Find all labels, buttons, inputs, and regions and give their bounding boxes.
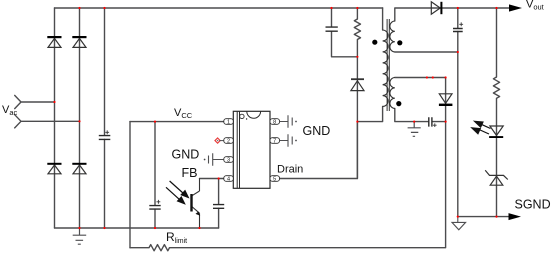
junction FB node — [218, 177, 220, 179]
no-connect diamond pin 2 — [215, 138, 220, 143]
wire FB cap column — [218, 179, 220, 229]
ground pin 7 — [280, 134, 293, 147]
junction ground rail / bypass cap — [154, 227, 156, 229]
transformer core — [387, 19, 389, 111]
pin 8 — [270, 119, 280, 126]
diode output rectifier — [431, 2, 440, 14]
wire bias bottom lead — [395, 109, 446, 122]
wire bulk cap column — [104, 8, 106, 228]
wire AC input lower — [15, 115, 80, 128]
junction AC lower / bridge col2 — [78, 120, 80, 122]
svg-text:3: 3 — [227, 158, 230, 164]
junction SGND / zener — [495, 216, 497, 218]
pin 7 — [270, 138, 280, 145]
junction top rail / bulk cap — [103, 7, 105, 9]
junction snubber bottom — [356, 56, 358, 58]
junction ground rail / bulk cap — [103, 227, 105, 229]
junction AC upper / bridge col1 — [53, 101, 55, 103]
junction ground rail / opto emitter — [198, 227, 200, 229]
wire Rlimit bottom loop — [130, 122, 446, 248]
junction bias top lead a — [426, 76, 428, 78]
wire Drain line — [280, 122, 358, 179]
LED output — [490, 126, 503, 135]
junction bias return / ground — [413, 121, 415, 123]
wire clamp column — [356, 8, 358, 179]
resistor snubber — [354, 19, 360, 40]
wire bias top lead — [395, 77, 446, 79]
svg-text:8: 8 — [273, 120, 276, 126]
optocoupler light arrows — [166, 181, 188, 204]
junction drain / primary / clamp — [356, 121, 358, 123]
zener diode — [485, 170, 508, 185]
junction bias top lead b — [432, 76, 434, 78]
port arrow SGND — [509, 213, 522, 220]
svg-text:5: 5 — [273, 177, 276, 183]
transformer T1 primary winding — [383, 30, 388, 107]
wire bottom primary ground rail — [55, 227, 219, 229]
ground SGND triangle — [452, 217, 466, 230]
ground bias — [408, 122, 421, 137]
capacitor Vcc bypass — [149, 206, 160, 210]
junction ground rail / bridge col2 — [78, 227, 80, 229]
wire bridge column 2 — [79, 8, 81, 228]
wire bias diode column — [445, 78, 447, 122]
diode D2 bridge top-right — [73, 38, 86, 47]
pin 3 — [224, 157, 234, 164]
svg-text:1: 1 — [227, 120, 230, 126]
svg-text:VCC: VCC — [174, 107, 193, 120]
wire FB line — [200, 178, 224, 180]
pin 1 — [224, 119, 234, 126]
diode D1 bridge top-left — [48, 38, 61, 47]
svg-text:GND: GND — [303, 124, 331, 138]
wire bridge column 1 — [54, 8, 56, 228]
wire output cap column — [457, 8, 459, 217]
junction bias rectifier output — [445, 121, 447, 123]
svg-text:SGND: SGND — [515, 198, 551, 212]
dot primary polarity — [372, 40, 377, 45]
capacitor output — [453, 29, 463, 32]
junction Vout / output cap — [457, 7, 459, 9]
resistor output — [493, 77, 499, 98]
junction Vout / LED chain — [495, 7, 497, 9]
wire LED chain column — [496, 8, 498, 217]
capacitor snubber — [326, 27, 338, 31]
port arrow Vout — [509, 4, 522, 11]
diode D3 bridge bottom-left — [48, 165, 61, 174]
LED arrows — [472, 121, 491, 134]
capacitor bulk — [99, 136, 111, 140]
ground pin 8 — [280, 115, 293, 128]
svg-text:Rlimit: Rlimit — [166, 230, 187, 245]
svg-text:4: 4 — [227, 177, 230, 183]
junction bias top lead corner — [445, 76, 447, 78]
wire top rail — [55, 7, 383, 9]
transformer secondary winding — [390, 21, 395, 52]
wire Vcc bypass cap column — [154, 122, 156, 228]
junction top rail / snubber cap — [330, 7, 332, 9]
junction top rail / snubber resistor — [356, 7, 358, 9]
IC body U1 — [233, 111, 270, 188]
pin 4 — [224, 176, 234, 183]
junction Vcc line / bypass cap — [154, 121, 156, 123]
wire SGND rail — [458, 216, 509, 218]
svg-text:7: 7 — [273, 139, 276, 145]
capacitor bias series — [429, 117, 432, 126]
svg-text:Drain: Drain — [277, 164, 303, 176]
ground primary — [73, 228, 87, 244]
diode bias rectifier — [439, 94, 452, 104]
optocoupler phototransistor — [192, 179, 200, 229]
wire snubber cap branch — [332, 8, 358, 57]
pin 2 — [224, 138, 234, 145]
wire secondary top lead — [395, 8, 509, 21]
wire secondary bottom return — [395, 51, 458, 53]
ground pin 3 — [209, 153, 224, 166]
dot bias polarity — [396, 101, 401, 106]
diode D4 bridge bottom-right — [73, 165, 86, 174]
diode clamp — [351, 79, 364, 90]
junction secondary return / output cap — [457, 51, 459, 53]
svg-text:FB: FB — [182, 166, 198, 180]
junction SGND / output return — [457, 216, 459, 218]
wire AC input upper — [15, 95, 55, 108]
wire primary top lead — [382, 8, 384, 30]
svg-text:2: 2 — [227, 139, 230, 145]
resistor Rlimit — [149, 245, 170, 251]
capacitor FB — [213, 205, 224, 209]
dot secondary polarity — [397, 40, 402, 45]
wire Vcc feed down — [129, 122, 131, 248]
wire Vcc line — [130, 121, 224, 123]
svg-text:GND: GND — [172, 148, 200, 162]
svg-text:Vac: Vac — [2, 104, 18, 117]
transformer bias winding — [390, 78, 395, 109]
svg-text:Vout: Vout — [526, 0, 545, 12]
wire primary bottom lead — [357, 107, 382, 122]
junction top rail / bridge col2 — [78, 7, 80, 9]
pin 5 — [270, 176, 280, 183]
